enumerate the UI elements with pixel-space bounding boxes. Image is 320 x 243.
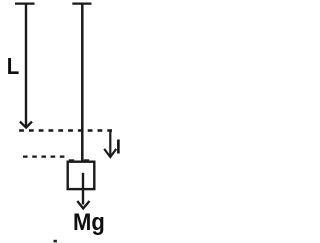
svg-text:L: L	[7, 53, 19, 79]
svg-text:l: l	[116, 138, 121, 159]
svg-text:Mg: Mg	[73, 209, 105, 236]
